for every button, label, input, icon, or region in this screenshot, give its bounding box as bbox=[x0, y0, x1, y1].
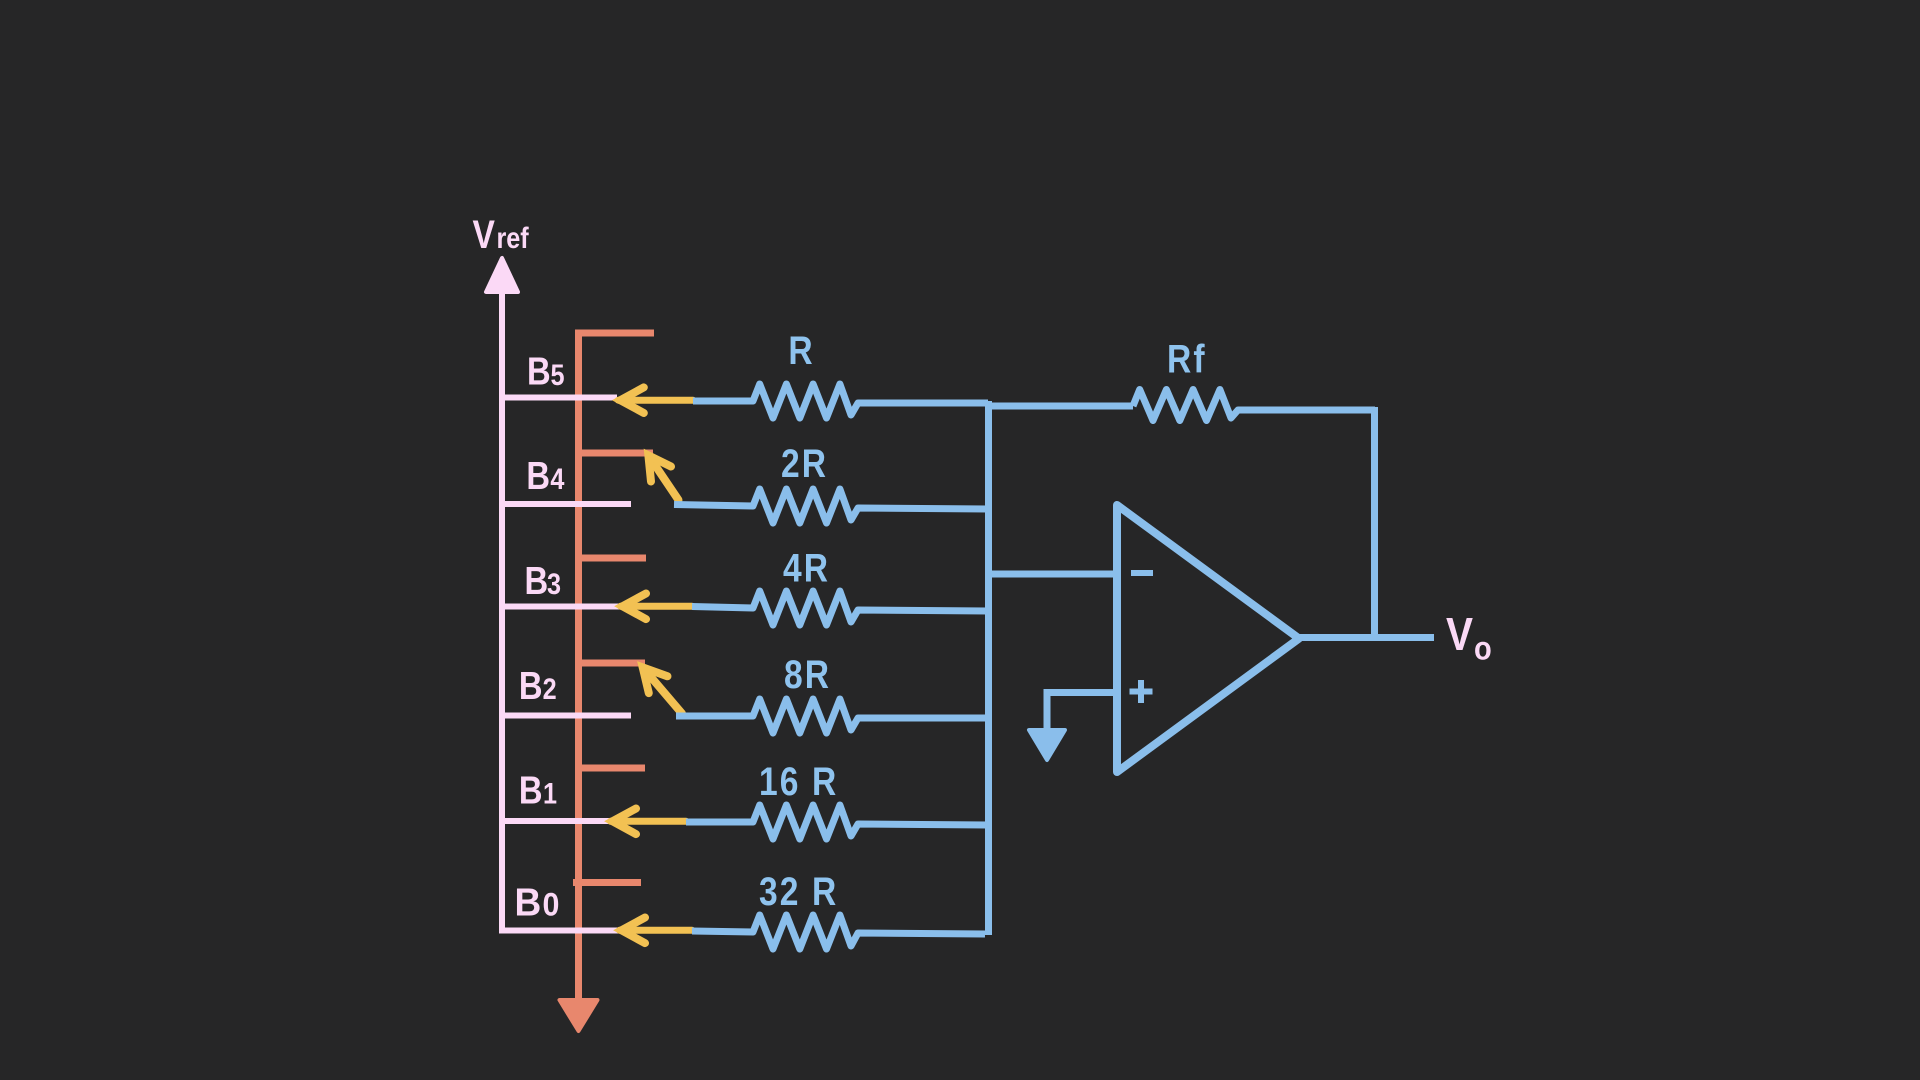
svg-text:2R: 2R bbox=[781, 441, 828, 485]
svg-text:5: 5 bbox=[551, 358, 565, 392]
resistor 16R (B1 branch) bbox=[686, 805, 988, 839]
resistor 32R (B0 branch) bbox=[692, 915, 985, 949]
resistor 8R (B2 branch) bbox=[676, 699, 988, 733]
wire output bbox=[1296, 634, 1434, 641]
svg-text:32 R: 32 R bbox=[759, 869, 838, 913]
wire bit B5 node (pink) bbox=[499, 395, 617, 401]
svg-text:ref: ref bbox=[497, 221, 530, 255]
ground arrow (non-inverting input) bbox=[1029, 730, 1065, 760]
svg-text:R: R bbox=[788, 328, 812, 372]
wire non-inverting input bbox=[1047, 693, 1117, 734]
resistor 4R (B3 branch) bbox=[692, 591, 988, 625]
summing bus (blue vertical) bbox=[985, 401, 992, 935]
node B4 label bbox=[526, 453, 565, 497]
svg-text:B: B bbox=[515, 882, 542, 925]
node B2 label bbox=[519, 663, 557, 707]
wire stub B2 (orange) bbox=[575, 660, 645, 667]
switch arrow B3 (yellow, closed to Vref) bbox=[621, 594, 693, 620]
switch arrow B4 (yellow, to ground stub) bbox=[648, 455, 678, 500]
switch arrow B0 (yellow, closed to Vref) bbox=[620, 918, 693, 944]
svg-text:B: B bbox=[519, 768, 543, 812]
node B0 label bbox=[515, 882, 560, 925]
Vref arrow (pink up arrow) bbox=[486, 258, 518, 931]
wire stub B0 (orange) bbox=[573, 879, 641, 886]
svg-text:Rf: Rf bbox=[1167, 337, 1207, 381]
svg-text:B: B bbox=[527, 349, 551, 393]
wire bit B4 node (pink) bbox=[499, 501, 631, 507]
wire bit B3 node (pink) bbox=[499, 604, 620, 610]
node B3 label bbox=[525, 558, 562, 602]
svg-text:8R: 8R bbox=[784, 652, 831, 696]
resistor 2R (B4 branch) bbox=[674, 489, 988, 523]
wire inverting input (bus to op-amp) bbox=[988, 571, 1117, 578]
wire bit B2 node (pink) bbox=[499, 713, 631, 719]
svg-text:B: B bbox=[525, 558, 549, 602]
switch arrow B2 (yellow, to ground stub) bbox=[643, 667, 682, 713]
svg-text:V: V bbox=[1446, 610, 1473, 661]
svg-text:o: o bbox=[1474, 630, 1492, 667]
switch arrow B1 (yellow, closed to Vref) bbox=[611, 809, 687, 835]
wire bus to Rf (top) bbox=[985, 403, 1133, 410]
wire feedback vertical bbox=[1371, 407, 1378, 641]
svg-text:3: 3 bbox=[547, 567, 561, 601]
svg-text:2: 2 bbox=[543, 672, 557, 706]
op-amp U1 triangle bbox=[1117, 505, 1299, 772]
svg-text:B: B bbox=[519, 663, 543, 707]
wire bit B0 node (pink) bbox=[499, 928, 620, 934]
node B5 label bbox=[527, 349, 565, 393]
svg-text:0: 0 bbox=[543, 887, 560, 923]
resistor Rf (feedback) bbox=[1133, 390, 1375, 421]
op-amp plus sign bbox=[1130, 680, 1153, 703]
wire stub B1 (orange) bbox=[575, 765, 645, 772]
wire stub B4 (orange) bbox=[575, 450, 653, 457]
svg-text:4: 4 bbox=[550, 462, 565, 496]
wire bit B1 node (pink) bbox=[499, 818, 612, 824]
svg-text:1: 1 bbox=[543, 776, 557, 810]
resistor R (B5 branch) bbox=[693, 384, 988, 418]
svg-text:4R: 4R bbox=[783, 546, 830, 590]
wire stub B5 (orange) bbox=[575, 330, 654, 337]
node B1 label bbox=[519, 768, 557, 812]
node Vref label bbox=[473, 212, 530, 256]
svg-text:V: V bbox=[473, 212, 496, 256]
switch arrow B5 (yellow, closed to Vref) bbox=[618, 387, 693, 413]
wire stub B3 (orange) bbox=[575, 555, 646, 562]
op-amp minus sign bbox=[1131, 570, 1153, 576]
svg-text:16 R: 16 R bbox=[759, 759, 838, 803]
svg-text:B: B bbox=[526, 453, 550, 497]
node Vo label bbox=[1446, 610, 1492, 667]
ground bus (orange vertical with bottom arrow) bbox=[560, 330, 598, 1031]
